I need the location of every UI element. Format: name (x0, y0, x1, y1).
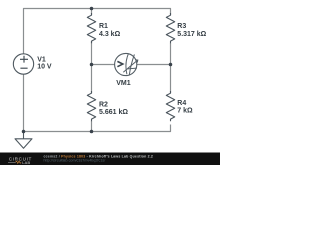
svg-text:http://circuitlab.com/c3s7mv4b: http://circuitlab.com/c3s7mv4bq2fc1s/ (44, 159, 106, 163)
wire voltmeter right (137, 64, 171, 66)
resistor R1 (87, 13, 95, 43)
wire R3 to node B (170, 43, 172, 65)
label V1 (37, 57, 52, 71)
svg-text:R4: R4 (177, 100, 186, 107)
svg-text:R3: R3 (177, 23, 186, 30)
node top junction (90, 7, 94, 11)
wire R2 to bottom (91, 121, 93, 132)
footer logo CIRCUIT (8, 156, 32, 165)
footer bar (0, 153, 220, 166)
wire left vertical + top rail (24, 9, 171, 54)
svg-text:R2: R2 (99, 101, 108, 108)
label R2 (99, 101, 128, 116)
label VM1 (116, 80, 131, 87)
wire node A to R2 (91, 65, 93, 94)
svg-text:VM1: VM1 (116, 80, 131, 87)
resistor R4 (166, 91, 174, 121)
wire R1 to node A (91, 42, 93, 65)
svg-text:4.3 kΩ: 4.3 kΩ (99, 31, 121, 38)
node bottom middle (90, 130, 94, 134)
wire voltmeter left (92, 64, 115, 66)
svg-text:LAB: LAB (22, 160, 30, 165)
label R4 (177, 100, 193, 115)
svg-text:R1: R1 (99, 23, 108, 30)
ground (15, 132, 32, 149)
svg-text:7 kΩ: 7 kΩ (177, 108, 193, 115)
resistor R2 (87, 91, 95, 121)
wire node B to R4 (170, 65, 172, 94)
label R1 (99, 23, 121, 38)
voltage source V1 (13, 54, 33, 74)
voltmeter VM1 (115, 53, 138, 75)
label R3 (177, 23, 206, 38)
node A (VM1 left) (90, 63, 94, 67)
resistor R3 (166, 13, 174, 43)
wire bottom rail (24, 74, 171, 131)
wire middle branch top (91, 9, 93, 16)
svg-text:5.661 kΩ: 5.661 kΩ (99, 109, 128, 116)
svg-text:5.317 kΩ: 5.317 kΩ (177, 31, 206, 38)
svg-text:10 V: 10 V (37, 63, 52, 70)
node ground junction (22, 130, 26, 134)
node B (VM1 right) (169, 63, 173, 67)
